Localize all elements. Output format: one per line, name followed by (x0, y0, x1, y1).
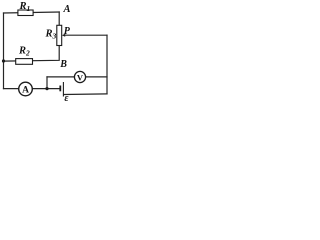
svg-text:P: P (64, 26, 71, 37)
svg-text:B: B (59, 59, 67, 70)
svg-text:A: A (63, 4, 71, 15)
svg-text:A: A (22, 86, 29, 96)
svg-text:V: V (77, 72, 84, 82)
